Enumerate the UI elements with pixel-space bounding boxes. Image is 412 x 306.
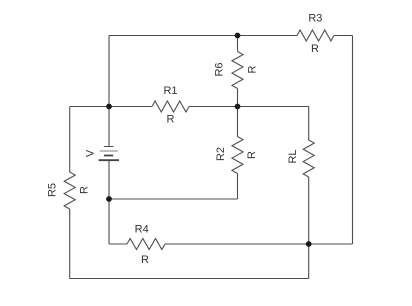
svg-text:R1: R1 (163, 85, 177, 97)
value label R of R6 (247, 65, 259, 73)
wire R3 right lead to right edge (334, 35, 353, 37)
wire R2 bottom lead (237, 174, 239, 200)
svg-text:R: R (167, 114, 175, 126)
label R4 (135, 224, 149, 236)
svg-text:R4: R4 (135, 224, 149, 236)
label R5 (47, 183, 59, 197)
svg-text:R: R (246, 151, 258, 159)
junction node at battery bottom (106, 196, 112, 202)
wire R5 bottom lead (69, 209, 71, 279)
wire R5 top lead (69, 107, 71, 173)
wire R1 to RL top (189, 106, 309, 108)
resistor RL (303, 140, 314, 177)
junction node at R6/R2/R1/RL (235, 104, 241, 110)
resistor R3 (297, 30, 334, 41)
wire R4 right lead to junction (165, 243, 309, 245)
svg-text:R2: R2 (215, 147, 227, 161)
battery V long plate 2 (100, 150, 118, 152)
junction node at R1 left / battery top (106, 104, 112, 110)
svg-text:R: R (311, 43, 319, 55)
resistor R1 (152, 101, 189, 112)
svg-text:RL: RL (287, 149, 299, 163)
label R2 (215, 147, 227, 161)
wire right edge to bottom-right junction (309, 243, 353, 245)
wire R6 bottom lead (237, 89, 239, 107)
battery V top short plate (104, 146, 114, 148)
resistor R2 (232, 137, 243, 174)
wire battery bottom to R4 left (108, 160, 110, 244)
wire R2 top lead (237, 107, 239, 137)
resistor R6 (232, 52, 243, 89)
value label R of R1 (167, 114, 175, 126)
wire R6 top lead (237, 36, 239, 52)
wire mid-left to R1 (70, 106, 152, 108)
wire top from left corner to R3 (109, 35, 297, 37)
battery V short plate 3 (104, 155, 113, 157)
wire bottom rail (70, 278, 309, 280)
svg-text:R: R (247, 65, 259, 73)
value label R of R4 (141, 254, 149, 266)
value label R of R5 (79, 186, 91, 194)
label R6 (214, 62, 226, 76)
svg-text:R: R (79, 186, 91, 194)
value label R of R3 (311, 43, 319, 55)
label RL (287, 149, 299, 163)
wire RL bottom lead to junction (308, 177, 310, 244)
wire RL top lead (308, 107, 310, 141)
label R3 (308, 13, 322, 25)
label V of battery (85, 149, 97, 157)
battery V bottom long plate (99, 159, 119, 161)
junction node bottom-right (306, 241, 312, 247)
svg-text:R: R (141, 254, 149, 266)
wire right edge vertical (352, 36, 354, 245)
value label R of R2 (246, 151, 258, 159)
svg-text:R3: R3 (308, 13, 322, 25)
wire R2 bottom to battery bottom junction (109, 198, 238, 200)
resistor R5 (64, 172, 75, 209)
svg-text:V: V (85, 149, 97, 157)
wire left-top vertical down to battery top (108, 36, 110, 147)
junction node at R6 top on top wire (235, 33, 241, 39)
resistor R4 (127, 239, 165, 250)
wire junction down to bottom rail (308, 244, 310, 279)
wire R4 left lead (109, 243, 127, 245)
svg-text:R6: R6 (214, 62, 226, 76)
label R1 (163, 85, 177, 97)
svg-text:R5: R5 (47, 183, 59, 197)
